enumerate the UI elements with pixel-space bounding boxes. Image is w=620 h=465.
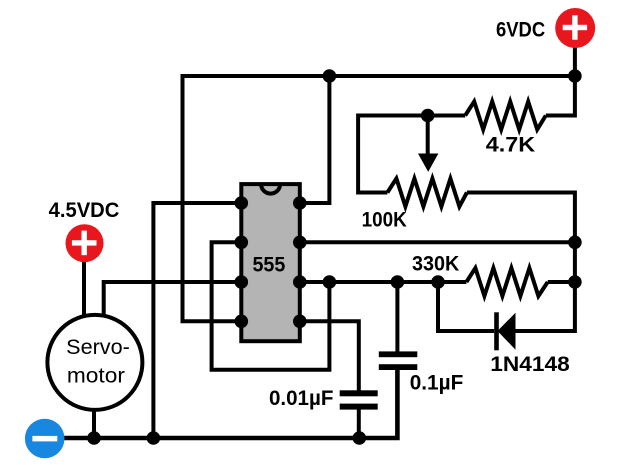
junction: pin3 line / 330K+diode left (431, 275, 445, 289)
wire: pot wiper arrow shaft (426, 116, 430, 156)
svg-text:Servo-: Servo- (66, 335, 130, 359)
junction: pin3 line / trigger link (323, 275, 337, 289)
svg-text:0.01µF: 0.01µF (269, 386, 334, 410)
diode 1N4148 triangle (498, 313, 516, 350)
resistor 330K zigzag (466, 268, 547, 296)
wire: 555 pin (left,1st) to ground rail (153, 203, 241, 438)
junction: servo ground (87, 431, 101, 445)
wire: 0.1uF top connection (395, 282, 399, 352)
wire: trigger link from junction down, left, up to 555 pin (left,2nd) (212, 242, 330, 369)
wire: ground rail from battery minus to 0.1uF bottom (63, 370, 397, 439)
svg-text:1N4148: 1N4148 (490, 352, 570, 376)
diode 1N4148 cathode bar (494, 312, 499, 350)
junction: pin3 line / 0.1uF (391, 275, 405, 289)
svg-text:330K: 330K (412, 252, 460, 276)
svg-text:4.5VDC: 4.5VDC (49, 198, 120, 222)
junction: 4.7K left / pot wiper (421, 109, 435, 123)
pin dot right 3 (293, 275, 307, 289)
op-amp/timer IC 555 body (241, 184, 299, 341)
potentiometer 100K zigzag (387, 179, 467, 207)
junction: pin2 line / right column (568, 236, 582, 250)
pin dot left 1 (235, 196, 249, 210)
wire: V+ top rail from 555 pin (left,4th) up and across to right column (183, 76, 575, 321)
svg-text:0.1µF: 0.1µF (410, 371, 464, 395)
wire: 330K right lead (548, 280, 575, 284)
pin dot left 3 (235, 275, 249, 289)
wire: 555 pin (right,3rd) net to 330K left junction (300, 280, 467, 284)
pin dot right 1 (293, 196, 307, 210)
svg-text:555: 555 (252, 253, 285, 277)
pin dot right 2 (293, 236, 307, 250)
junction: 0.01uF ground (353, 431, 367, 445)
power terminal 4.5VDC plus circle (66, 224, 104, 262)
pin dot left 4 (235, 315, 249, 329)
pin dot left 2 (235, 236, 249, 250)
svg-text:4.7K: 4.7K (486, 133, 536, 157)
power terminal minus circle (25, 419, 65, 459)
wire: 555 pin (left,3rd) to servo motor (104, 282, 242, 320)
capacitor 0.01uF plates (340, 390, 378, 396)
servo motor circle (47, 315, 142, 410)
wire: servo motor to ground rail (92, 410, 96, 438)
svg-text:motor: motor (67, 364, 125, 388)
junction: pin1-left ground (147, 431, 161, 445)
resistor 4.7K zigzag (465, 102, 546, 130)
svg-text:6VDC: 6VDC (496, 18, 545, 42)
wire: 0.01uF bottom to ground rail (357, 409, 361, 438)
junction: top rail / pin1 branch (323, 69, 337, 83)
IC 555 pin-1 notch (261, 184, 280, 194)
wire: top rail junction down to 555 pin (right,1st) (300, 76, 330, 203)
wire: 555 pin (right,2nd) to right column (300, 240, 575, 244)
power terminal 6VDC plus circle (555, 8, 595, 48)
junction: 330K right / right column (568, 275, 582, 289)
wire: pot right lead to right column, down to diode right lead (467, 193, 575, 332)
wire: 4.5VDC terminal to servo motor (82, 259, 86, 320)
junction: top rail / 6VDC column (568, 69, 582, 83)
wire: 555 pin (right,4th) to 0.01uF top (300, 321, 359, 391)
wire: 4.7K left lead to pot left lead (358, 116, 465, 193)
wire: diode left lead from 330K left junction (438, 282, 494, 331)
svg-text:100K: 100K (362, 208, 408, 232)
potentiometer wiper arrowhead (418, 154, 438, 172)
capacitor 0.1uF plates (379, 351, 418, 357)
pin dot right 4 (293, 315, 307, 329)
wire: 6VDC terminal down through junction to 4.7K right lead (546, 45, 575, 116)
